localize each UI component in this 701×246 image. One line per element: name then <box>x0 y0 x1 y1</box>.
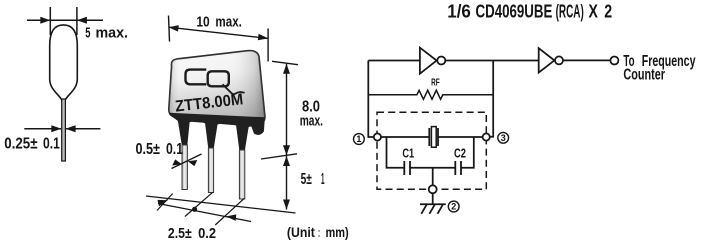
dim 5max arrow right <box>77 17 87 24</box>
lead leg 3 <box>239 150 244 199</box>
dim 5max arrow left <box>40 17 50 24</box>
body side shading <box>169 51 265 123</box>
dim 0.5 slanted line <box>172 154 202 169</box>
dim 5±1 arrow up <box>283 156 290 166</box>
dashed enclosure box <box>377 112 486 189</box>
U2 output bubble <box>555 56 563 64</box>
CQ logo: Q tail <box>223 84 245 94</box>
component body (photo) <box>169 51 265 123</box>
capacitor C1 plates <box>403 161 405 175</box>
wire: C branch right vertical <box>461 137 474 168</box>
dim 0.25 arrow left <box>51 125 61 132</box>
svg-text:0.5±0.1: 0.5±0.1 <box>136 141 184 158</box>
lead shoulder 2 <box>205 123 218 149</box>
resistor RF <box>368 90 493 99</box>
node 2 circled label <box>448 201 459 212</box>
dim 8.0 arrow up <box>283 64 290 74</box>
dim 5max dimension line <box>27 19 103 21</box>
node 3 open circle <box>483 133 490 140</box>
pitch arrow 2 <box>226 214 236 221</box>
dim 8.0 vertical line <box>286 64 288 156</box>
pitch baseline (lead tips line) <box>146 196 296 213</box>
wire: input to inverter U1 <box>368 60 420 62</box>
resonator crystal plates <box>428 128 430 146</box>
pitch arrow 1 <box>158 200 169 206</box>
CQ logo: Q <box>208 71 229 86</box>
resonator crystal box <box>431 127 436 148</box>
svg-text:max.: max. <box>300 113 323 130</box>
dim 0.5 arrow left <box>172 159 182 165</box>
pitch ext line 1 <box>157 194 173 211</box>
node 1 open circle <box>374 133 381 140</box>
dim 10max extension line left <box>169 16 170 42</box>
dim 0.25 dimension line <box>24 128 100 130</box>
wire: U2 output to terminal <box>563 59 610 61</box>
capacitor C2 plates <box>454 161 456 175</box>
pitch ext line 2 <box>185 192 213 216</box>
op-amp U1 inverter triangle <box>420 48 437 74</box>
dim 5±1 mid tick <box>261 154 297 159</box>
lead leg 2 <box>208 148 213 193</box>
dim 5max extension line left <box>49 7 51 35</box>
dim 5±1 vertical line <box>286 156 288 210</box>
wire: between C1 and C2 <box>410 167 455 169</box>
dim 8.0 arrow down <box>283 145 290 155</box>
dim 10max arrow left <box>169 25 179 32</box>
svg-text:2: 2 <box>451 202 456 212</box>
wire: node 2 to ground <box>432 193 434 204</box>
lead shoulder 1 <box>178 120 190 146</box>
svg-text:RF: RF <box>431 76 440 88</box>
wire: U1 output to U2 input <box>445 60 538 62</box>
output terminal circle <box>610 57 618 65</box>
dim 10max extension line right <box>267 29 269 62</box>
CQ logo: C <box>186 70 207 85</box>
lead leg 1 <box>182 145 187 190</box>
svg-text:1: 1 <box>356 134 361 144</box>
dim 0.5 arrow right <box>188 160 198 166</box>
svg-text:Counter: Counter <box>623 66 665 83</box>
svg-text:C2: C2 <box>454 147 466 161</box>
wire: node row <box>382 136 430 138</box>
node 1 circled label <box>354 134 365 145</box>
node 2 open circle <box>429 185 437 193</box>
svg-text:C1: C1 <box>402 147 414 161</box>
dim 0.25 arrow right <box>66 125 76 132</box>
op-amp U2 inverter triangle <box>539 48 555 72</box>
wire: right feedback vertical <box>490 61 493 137</box>
lead wire (side view) <box>62 99 66 161</box>
svg-text:0.25±0.1: 0.25±0.1 <box>4 136 60 153</box>
svg-text:3: 3 <box>501 133 506 143</box>
node 3 circled label <box>498 132 509 143</box>
dim 5max extension line right <box>76 7 78 35</box>
pitch ext line 3 <box>215 198 244 225</box>
pitch lower dim line <box>158 204 251 222</box>
wire: left feedback vertical <box>368 61 373 138</box>
svg-text:(Unit:mm): (Unit:mm) <box>287 225 349 240</box>
wire: center down to node 2 <box>432 168 434 186</box>
dim 10max dimension line <box>169 27 269 38</box>
ground symbol <box>420 204 446 214</box>
svg-text:10max.: 10max. <box>196 13 242 30</box>
pitch junction dot <box>192 207 197 212</box>
dim 5±1 arrow down <box>283 200 290 210</box>
dim 10max arrow right <box>258 34 268 41</box>
resonator capsule body (side view) <box>50 25 78 100</box>
body bottom dark band <box>169 113 265 135</box>
lead shoulder 3 <box>236 125 249 151</box>
wire: C branch left vertical <box>387 137 405 168</box>
dim 8.0 top tick <box>272 61 298 64</box>
U1 output bubble <box>437 57 445 65</box>
